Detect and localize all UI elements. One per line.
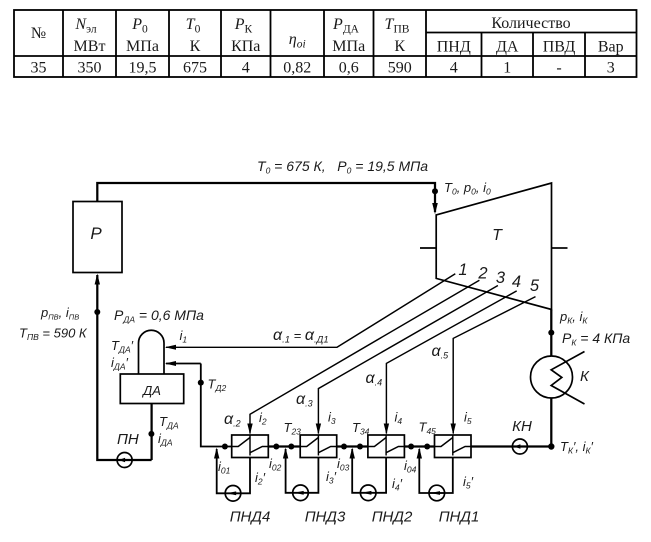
svg-text:P: P: [90, 224, 102, 243]
wire PND4-PND3: [268, 445, 300, 447]
svg-text:МПа: МПа: [126, 38, 159, 55]
svg-text:T0, p0, i0: T0, p0, i0: [444, 180, 491, 197]
pump PN: [117, 453, 132, 468]
drain loop PND2: [350, 448, 387, 501]
turbine shaft right: [552, 247, 568, 249]
extraction line 5: [453, 297, 535, 434]
node PND3 inlet: [288, 444, 294, 450]
node feed line: [94, 309, 100, 315]
svg-text:3: 3: [607, 60, 615, 77]
condenser cooling water line: [551, 352, 584, 405]
turbine shaft left: [420, 247, 436, 249]
node Tk' ik': [548, 443, 554, 449]
heater PND3: [300, 435, 337, 458]
heater PND4: [232, 435, 269, 458]
condenser inlet line: [550, 310, 552, 357]
svg-text:T: T: [492, 227, 503, 244]
svg-text:1: 1: [458, 261, 467, 279]
svg-text:ПНД1: ПНД1: [439, 509, 480, 526]
drain loop PND4: [214, 448, 250, 502]
svg-text:К: К: [580, 368, 590, 385]
svg-text:4: 4: [450, 60, 458, 77]
svg-text:ПВД: ПВД: [543, 39, 576, 56]
svg-text:1: 1: [503, 60, 511, 77]
svg-text:350: 350: [78, 60, 102, 77]
node steam line: [432, 188, 438, 194]
node pk ik: [548, 330, 554, 336]
svg-text:19,5: 19,5: [129, 60, 157, 77]
table header texts: [31, 15, 624, 56]
extraction line 4: [386, 291, 516, 434]
svg-text:675: 675: [183, 60, 207, 77]
svg-text:3: 3: [496, 269, 506, 287]
svg-text:КН: КН: [512, 418, 532, 435]
node Td2: [198, 380, 204, 386]
wire PND1 to condenser node: [471, 445, 551, 447]
node PND4 inlet: [222, 444, 228, 450]
svg-text:МВт: МВт: [74, 38, 106, 55]
wire PND2-PND1: [404, 445, 434, 447]
svg-text:МПа: МПа: [332, 38, 365, 55]
svg-text:ПНД: ПНД: [437, 39, 471, 56]
heater PND2: [368, 435, 405, 458]
svg-text:5: 5: [530, 277, 540, 295]
svg-text:ПНД3: ПНД3: [305, 509, 346, 526]
main condensate line: [201, 364, 232, 447]
deaerator DA: [120, 374, 183, 404]
svg-text:ДА: ДА: [496, 39, 519, 56]
drain loop PND3: [283, 448, 319, 501]
deaerator outlet: [150, 404, 152, 461]
node PND3 outlet T34: [341, 444, 347, 450]
svg-text:4: 4: [512, 273, 521, 291]
arrow into turbine: [432, 203, 438, 214]
extraction line 2: [250, 280, 479, 433]
svg-text:ПНД2: ПНД2: [372, 509, 413, 526]
svg-text:Количество: Количество: [491, 15, 570, 32]
node PND2 inlet: [357, 444, 363, 450]
deaerator dome: [139, 330, 165, 374]
node PND4 outlet T23: [273, 444, 279, 450]
table data row: [31, 60, 615, 77]
svg-text:0,6: 0,6: [339, 60, 359, 77]
condenser outlet line: [550, 398, 552, 447]
svg-text:0,82: 0,82: [283, 60, 311, 77]
svg-text:-: -: [556, 60, 561, 77]
heater PND1: [435, 435, 472, 458]
svg-text:ПН: ПН: [117, 431, 139, 448]
svg-text:590: 590: [388, 60, 412, 77]
svg-text:Вар: Вар: [598, 39, 624, 56]
extraction line 1 to deaerator: [166, 274, 455, 348]
svg-text:35: 35: [31, 60, 47, 77]
node PND2 outlet T45: [408, 444, 414, 450]
feed pump PN line: [97, 275, 151, 460]
condenser K: [531, 356, 573, 398]
svg-text:К: К: [190, 38, 201, 55]
pump KN: [512, 439, 527, 454]
svg-text:№: №: [31, 25, 46, 42]
svg-text:КПа: КПа: [231, 38, 260, 55]
svg-text:ДА: ДА: [141, 383, 161, 398]
arrow into deaerator from Td2 line: [166, 363, 201, 365]
svg-text:T0 = 675 К, P0 = 19,5 МПа: T0 = 675 К, P0 = 19,5 МПа: [257, 158, 428, 176]
table grid: [14, 10, 637, 77]
svg-text:4: 4: [242, 60, 250, 77]
node PND1 inlet: [424, 444, 430, 450]
svg-text:К: К: [394, 38, 405, 55]
svg-text:ПНД4: ПНД4: [230, 509, 271, 526]
boiler P: [73, 202, 122, 273]
extraction line 3: [318, 286, 498, 434]
drain loop PND1: [417, 448, 453, 501]
wire PND3-PND2: [337, 445, 368, 447]
main steam line boiler to turbine: [97, 183, 435, 212]
turbine T: [436, 183, 551, 310]
